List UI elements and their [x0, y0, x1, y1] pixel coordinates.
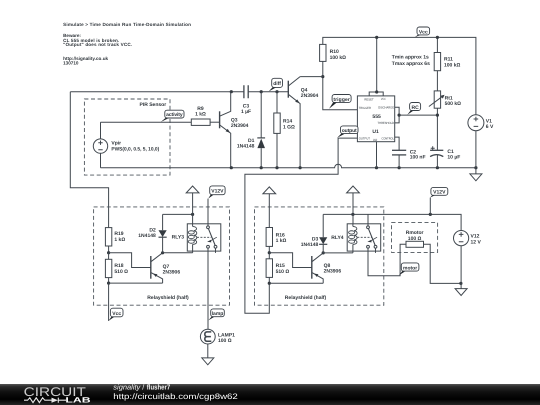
diode D3	[301, 214, 328, 253]
flag RC	[407, 103, 420, 115]
flag lamp	[208, 309, 224, 321]
svg-text:"Output" does not track VCC.: "Output" does not track VCC.	[63, 42, 132, 47]
wire relay NO to motor node	[368, 244, 406, 275]
svg-text:LAB: LAB	[65, 396, 91, 405]
power arrow V12V mid	[263, 187, 276, 228]
resistor R10	[320, 44, 347, 61]
flag Vcc bottom	[109, 308, 124, 321]
note Tmin Tmax	[392, 55, 430, 67]
svg-text:PWS(0,0, 0.5, 5, 10,0): PWS(0,0, 0.5, 5, 10,0)	[111, 147, 159, 153]
wire RC	[399, 114, 437, 116]
svg-text:THRESHOLD: THRESHOLD	[378, 121, 395, 125]
svg-text:http://circuitlab.com/cgp8w62: http://circuitlab.com/cgp8w62	[113, 392, 238, 401]
svg-text:2N3904: 2N3904	[231, 123, 249, 129]
wire activity node	[101, 121, 192, 123]
logo CIRCUIT LAB	[24, 385, 92, 405]
svg-text:510 Ω: 510 Ω	[114, 269, 128, 275]
svg-text:CONTROL: CONTROL	[382, 137, 395, 141]
wire down to Vcc flag	[108, 283, 110, 321]
voltage source Vpir	[93, 122, 159, 168]
svg-text:1 kΩ: 1 kΩ	[114, 237, 125, 243]
resistor R16	[266, 228, 286, 253]
junction R10 bottom / Q4 collector	[321, 75, 324, 78]
node diff junction D1	[260, 90, 263, 93]
svg-text:100 nF: 100 nF	[410, 155, 426, 161]
svg-text:1 kΩ: 1 kΩ	[195, 112, 206, 118]
svg-text:output: output	[342, 128, 357, 134]
ground main	[470, 168, 482, 181]
svg-text:GND: GND	[373, 138, 378, 142]
transistor Q4	[288, 77, 318, 168]
svg-text:DISCHARGE: DISCHARGE	[378, 106, 394, 110]
wire 555 output loop to right relayshield	[245, 138, 358, 313]
attribution text	[113, 383, 238, 401]
svg-text:V12V: V12V	[211, 189, 224, 195]
junction R14 top	[275, 90, 278, 93]
svg-text:PIR Sensor: PIR Sensor	[140, 102, 167, 108]
svg-text:Simulate > Time Domain Run Tim: Simulate > Time Domain Run Time-Domain S…	[63, 22, 191, 27]
svg-text:lamp: lamp	[212, 311, 224, 317]
wire Q7 base jog	[109, 253, 151, 268]
lamp LAMP1	[200, 329, 235, 344]
voltage source V12	[454, 231, 482, 289]
junction coil top right	[351, 213, 354, 216]
voltage source V1	[468, 115, 494, 168]
svg-text:Tmax approx 6s: Tmax approx 6s	[392, 61, 430, 67]
junction R19/R18	[107, 251, 110, 254]
resistor Rmotor	[406, 230, 461, 283]
diode D1	[237, 92, 265, 168]
power arrow V12V right	[347, 186, 360, 224]
resistor R19	[105, 228, 125, 253]
ground motor	[455, 289, 467, 296]
flag trigger	[329, 95, 351, 109]
svg-text:1N4148: 1N4148	[237, 144, 255, 150]
junction R18 bottom	[107, 282, 110, 285]
capacitor C3	[241, 85, 251, 115]
svg-text:TRIGGER: TRIGGER	[359, 106, 372, 110]
junction R15 bottom / output loop	[268, 282, 271, 285]
svg-text:RC: RC	[411, 105, 419, 111]
svg-text:flusher7: flusher7	[147, 384, 170, 392]
svg-text:Tmin approx 1s: Tmin approx 1s	[392, 55, 429, 61]
flag V12V right	[430, 187, 448, 214]
capacitor C1 polarized	[430, 146, 460, 167]
wire collector to relay coil right	[323, 252, 353, 254]
Relayshield dashed box right	[255, 207, 384, 305]
junction Q7 collector	[161, 251, 164, 254]
wire C3 to diff node to Q4 base	[248, 91, 288, 93]
svg-text:Relayshield (half): Relayshield (half)	[285, 295, 327, 301]
wire R9 to Q3 base	[210, 121, 220, 123]
svg-text:510 Ω: 510 Ω	[276, 269, 290, 275]
relay RLY3	[172, 224, 221, 253]
capacitor C2	[392, 149, 426, 167]
svg-text:2N3904: 2N3904	[301, 93, 319, 99]
svg-text:500 kΩ: 500 kΩ	[445, 101, 462, 107]
svg-text:1 µF: 1 µF	[241, 109, 251, 115]
junction Q3 collector	[230, 90, 233, 93]
junction V12V flag right	[429, 213, 432, 216]
resistor R9	[191, 106, 210, 125]
wire Q8 base jog	[269, 253, 312, 268]
svg-text:Relayshield (half): Relayshield (half)	[147, 295, 189, 301]
wire V12V rail right	[323, 214, 461, 230]
svg-text:OUTPUT: OUTPUT	[359, 137, 370, 141]
flag activity	[161, 110, 184, 122]
svg-text:6 V: 6 V	[486, 124, 494, 130]
wire relay NO down to lamp	[207, 248, 209, 329]
wire feed to left relayshield	[70, 92, 108, 228]
wire Q7 emitter return	[109, 282, 163, 284]
wire D2 top to coil	[163, 213, 193, 215]
resistor R15	[266, 253, 289, 284]
svg-text:/: /	[142, 384, 144, 392]
svg-text:R15: R15	[276, 263, 285, 269]
wire Vcc top rail	[323, 37, 476, 114]
transistor Q7	[151, 253, 181, 283]
svg-text:RESET: RESET	[364, 97, 373, 101]
ground rail with hop	[101, 164, 476, 167]
resistor R11	[434, 36, 460, 91]
wire Q8 emitter return	[269, 282, 323, 284]
svg-text:VCC: VCC	[381, 97, 387, 101]
transistor Q8	[312, 253, 342, 283]
flag motor	[399, 263, 419, 275]
PIR Sensor dashed box	[84, 99, 170, 175]
svg-text:100 Ω: 100 Ω	[408, 236, 422, 242]
svg-text:130710: 130710	[63, 61, 79, 66]
wire R10 to 555 trigger	[323, 61, 358, 109]
wire relay common up to V12V flag	[207, 199, 209, 226]
svg-text:100 kΩ: 100 kΩ	[330, 55, 347, 61]
svg-text:2N3906: 2N3906	[163, 270, 181, 276]
svg-text:RLY4: RLY4	[331, 235, 344, 241]
svg-text:100 kΩ: 100 kΩ	[444, 62, 461, 68]
flag V12V left	[208, 186, 225, 199]
svg-text:12 V: 12 V	[471, 239, 482, 245]
wire collector to relay coil	[163, 252, 193, 254]
svg-text:signality: signality	[113, 384, 140, 392]
junction Q8 collector	[322, 251, 325, 254]
dashed box Rmotor	[392, 223, 438, 253]
junction R16/R15	[268, 251, 271, 254]
svg-text:U1: U1	[372, 129, 379, 135]
svg-text:100 Ω: 100 Ω	[218, 338, 232, 344]
svg-text:Vcc: Vcc	[419, 29, 428, 35]
wire Q4 collector	[300, 76, 323, 78]
flag Vcc top	[415, 27, 430, 37]
svg-text:1N4148: 1N4148	[301, 242, 319, 248]
junction coil top	[191, 213, 194, 216]
wire signal rail Q3 collector to C3	[70, 91, 244, 93]
svg-text:1N4148: 1N4148	[138, 233, 156, 239]
flag output	[337, 126, 358, 138]
relay RLY4	[331, 214, 380, 253]
svg-text:1 kΩ: 1 kΩ	[276, 238, 287, 244]
power arrow V12V left	[186, 186, 199, 224]
resistor R14	[274, 92, 295, 168]
op-amp 555 timer U1	[357, 36, 400, 168]
svg-text:V12V: V12V	[433, 190, 446, 196]
svg-text:10 µF: 10 µF	[447, 155, 460, 161]
junction dots on ground rail	[230, 166, 233, 169]
potentiometer Rt1	[429, 91, 461, 150]
svg-text:2N3906: 2N3906	[324, 269, 342, 275]
svg-text:diff: diff	[273, 81, 281, 87]
svg-text:RLY3: RLY3	[172, 234, 185, 240]
svg-text:1 GΩ: 1 GΩ	[283, 124, 295, 130]
junction V12 bottom	[459, 282, 462, 285]
transistor Q3	[220, 92, 249, 168]
svg-text:activity: activity	[166, 112, 183, 118]
flag diff	[269, 78, 283, 91]
diode D2	[138, 214, 166, 252]
svg-text:motor: motor	[403, 265, 417, 271]
note simulation header text	[63, 22, 191, 66]
svg-text:trigger: trigger	[333, 97, 350, 103]
resistor R18	[105, 253, 128, 283]
svg-text:Vcc: Vcc	[112, 311, 121, 317]
Relayshield dashed box left	[94, 207, 230, 305]
svg-text:555: 555	[372, 114, 381, 120]
ground lamp	[202, 344, 214, 365]
